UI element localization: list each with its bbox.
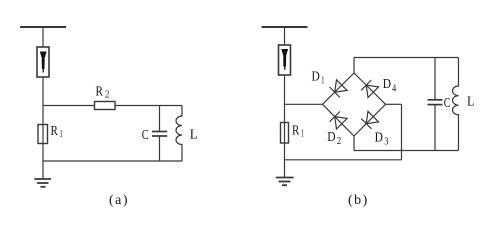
svg-text:C: C — [142, 127, 149, 142]
label R1 (a) — [51, 123, 63, 140]
label D2 — [327, 129, 341, 147]
label R2 — [96, 84, 110, 101]
capacitor C (a) wire top — [159, 106, 161, 132]
wire ground rail (b) — [285, 159, 402, 161]
label L (a) — [190, 126, 198, 141]
label L (b) — [467, 93, 474, 108]
wire R2 to corner (a) — [115, 105, 182, 107]
label D1 — [312, 68, 325, 86]
capacitor C (b) wire top — [434, 58, 436, 100]
detector arrow (b) — [281, 49, 288, 70]
detector box (a) — [37, 47, 49, 77]
svg-text:1: 1 — [321, 74, 324, 86]
svg-text:2: 2 — [105, 89, 109, 101]
inductor L (a) — [176, 106, 182, 162]
ground (a) — [34, 179, 51, 187]
svg-text:(a): (a) — [109, 193, 129, 208]
wire antenna lead (a) — [42, 27, 44, 47]
wire antenna lead (b) — [284, 27, 286, 45]
wire right drop (b) — [401, 104, 403, 160]
wire bottom rail (b) — [354, 150, 459, 152]
svg-text:R: R — [51, 123, 58, 138]
detector arrow (a) — [40, 52, 47, 73]
antenna top bar (b) — [262, 26, 308, 28]
svg-text:C: C — [444, 95, 451, 110]
label C (a) — [142, 127, 149, 142]
capacitor C (a) plates — [152, 132, 167, 137]
svg-text:2: 2 — [337, 135, 341, 147]
svg-text:4: 4 — [392, 83, 397, 95]
svg-text:R: R — [96, 84, 104, 99]
svg-text:R: R — [292, 123, 299, 138]
label D3 — [375, 129, 389, 147]
wire bottom stub (b) — [353, 136, 355, 151]
wire ground stub (a) — [42, 161, 44, 179]
wire top rail (b) — [354, 57, 459, 59]
resistor R1 (b) — [281, 123, 289, 144]
wire branch to R2 (a) — [43, 105, 95, 107]
wire top stub (b) — [353, 58, 355, 74]
antenna top bar (a) — [20, 26, 66, 28]
svg-text:D: D — [383, 76, 392, 91]
bridge edge bottom-right — [354, 104, 386, 136]
bridge edge top-right — [354, 73, 386, 104]
ground (b) — [276, 178, 294, 186]
capacitor C (a) wire bottom — [159, 136, 161, 161]
wire right node to corner (b) — [386, 103, 402, 105]
svg-text:L: L — [467, 93, 474, 108]
svg-text:D: D — [327, 129, 336, 144]
svg-text:D: D — [312, 68, 321, 83]
wire branch to bridge left node — [285, 103, 323, 105]
detector box (b) — [279, 45, 291, 75]
diode D3 — [361, 111, 379, 129]
wire bottom rail (a) — [43, 160, 182, 162]
resistor R2 — [95, 102, 116, 110]
bridge edge left-top — [323, 73, 355, 104]
svg-text:L: L — [190, 126, 198, 141]
svg-text:1: 1 — [60, 128, 63, 140]
wire trunk (b) — [284, 75, 286, 177]
label C (b) — [444, 95, 451, 110]
resistor R1 (a) — [38, 125, 48, 144]
inductor L (b) — [453, 58, 459, 151]
diode D2 — [330, 112, 348, 130]
wire trunk (a) — [42, 77, 44, 162]
diode D4 — [361, 80, 379, 98]
label R1 (b) — [292, 123, 304, 140]
capacitor C (b) plates — [428, 100, 443, 105]
svg-text:1: 1 — [301, 127, 304, 139]
svg-text:3: 3 — [384, 136, 389, 148]
diode D1 — [330, 80, 348, 98]
svg-text:(b): (b) — [348, 193, 369, 208]
bridge edge left-bottom — [323, 104, 355, 136]
caption (b) — [348, 193, 369, 208]
svg-text:D: D — [375, 129, 384, 144]
label D4 — [383, 76, 397, 95]
caption (a) — [109, 193, 129, 208]
capacitor C (b) wire bottom — [434, 105, 436, 151]
